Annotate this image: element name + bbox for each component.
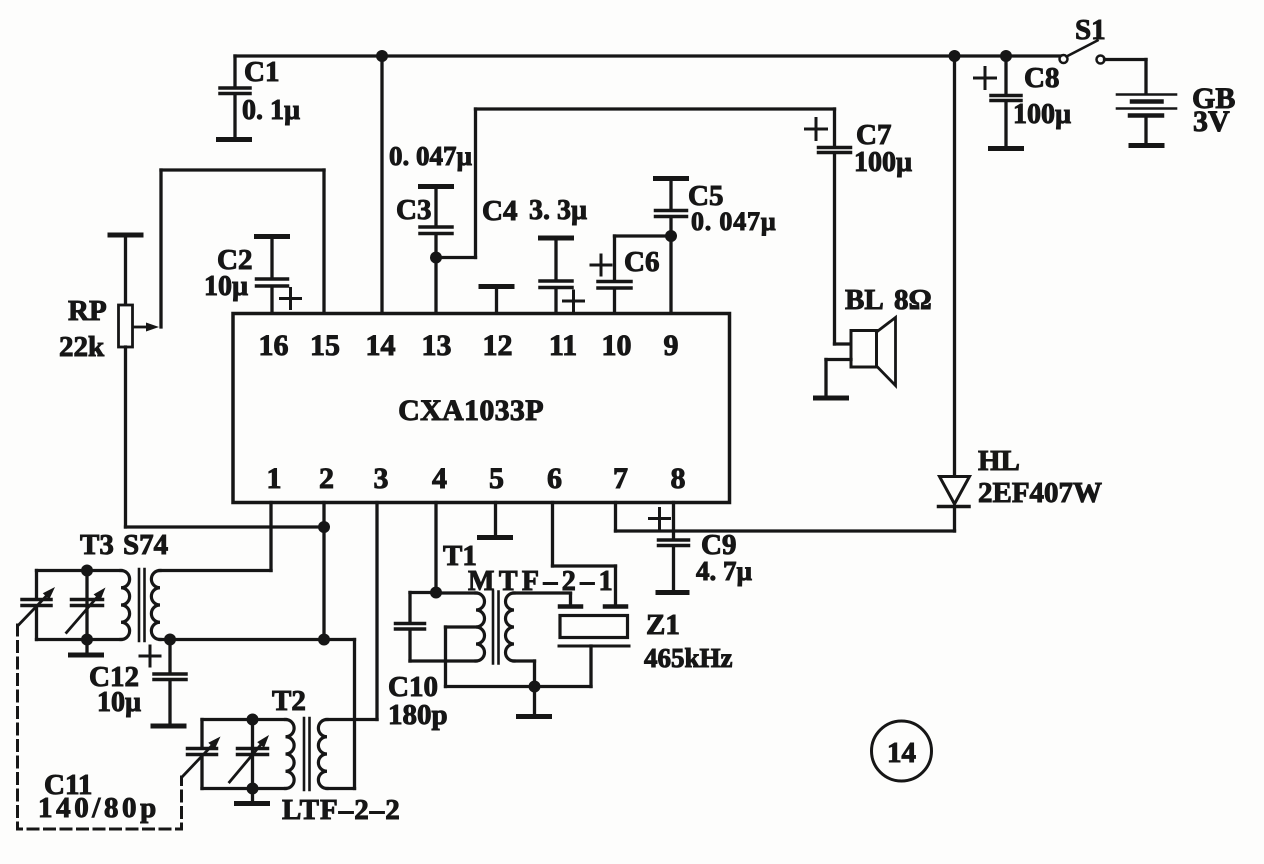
svg-text:2: 2	[319, 462, 334, 495]
svg-text:T2: T2	[272, 685, 306, 717]
svg-text:3: 3	[374, 462, 389, 495]
svg-text:10: 10	[602, 329, 632, 362]
svg-text:465kHz: 465kHz	[644, 643, 733, 673]
svg-text:15: 15	[310, 329, 340, 362]
svg-text:7: 7	[613, 462, 628, 495]
svg-text:8Ω: 8Ω	[894, 284, 932, 316]
svg-text:13: 13	[422, 329, 452, 362]
svg-text:3. 3µ: 3. 3µ	[529, 195, 587, 226]
svg-text:4. 7µ: 4. 7µ	[696, 556, 753, 586]
svg-text:0. 047µ: 0. 047µ	[691, 207, 777, 236]
svg-text:9: 9	[664, 329, 679, 362]
svg-text:S74: S74	[123, 529, 168, 561]
svg-text:140/80p: 140/80p	[38, 792, 160, 824]
svg-text:C1: C1	[244, 56, 279, 88]
svg-text:BL: BL	[845, 284, 884, 316]
svg-text:10µ: 10µ	[97, 687, 141, 718]
svg-text:0. 1µ: 0. 1µ	[242, 95, 300, 126]
svg-text:MTF–2–1: MTF–2–1	[468, 566, 617, 597]
svg-text:10µ: 10µ	[204, 271, 248, 302]
svg-text:3V: 3V	[1193, 105, 1230, 138]
svg-text:6: 6	[547, 462, 562, 495]
svg-text:S1: S1	[1075, 14, 1106, 46]
svg-text:1: 1	[267, 462, 282, 495]
svg-text:14: 14	[366, 329, 396, 362]
svg-text:HL: HL	[978, 445, 1020, 477]
svg-text:Z1: Z1	[646, 609, 680, 641]
svg-text:C8: C8	[1024, 62, 1059, 94]
svg-text:C4: C4	[482, 195, 517, 227]
svg-text:16: 16	[259, 329, 289, 362]
svg-text:0. 047µ: 0. 047µ	[389, 141, 473, 171]
svg-text:22k: 22k	[59, 331, 105, 363]
svg-text:8: 8	[671, 462, 686, 495]
svg-text:180p: 180p	[388, 699, 448, 731]
svg-text:100µ: 100µ	[854, 147, 912, 178]
svg-text:C3: C3	[396, 194, 431, 226]
svg-text:5: 5	[489, 462, 504, 495]
svg-text:C6: C6	[624, 246, 659, 278]
svg-text:14: 14	[887, 737, 916, 769]
svg-text:RP: RP	[68, 295, 107, 327]
svg-text:12: 12	[483, 329, 513, 362]
svg-text:T3: T3	[80, 529, 114, 561]
svg-text:2EF407W: 2EF407W	[978, 477, 1102, 509]
svg-text:LTF–2–2: LTF–2–2	[282, 794, 401, 826]
svg-text:4: 4	[432, 462, 447, 495]
svg-text:CXA1033P: CXA1033P	[398, 394, 544, 427]
svg-text:11: 11	[549, 329, 577, 362]
svg-text:100µ: 100µ	[1013, 99, 1071, 130]
